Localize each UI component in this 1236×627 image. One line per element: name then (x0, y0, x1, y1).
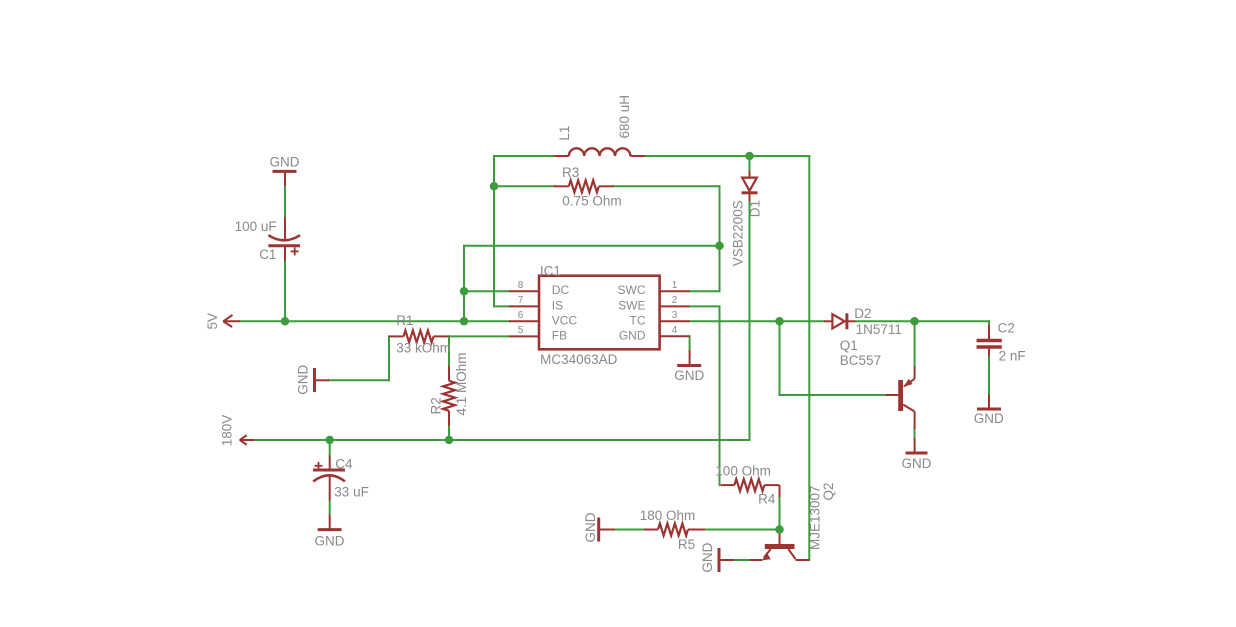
svg-text:100 Ohm: 100 Ohm (715, 464, 771, 479)
svg-text:C4: C4 (335, 457, 353, 472)
svg-text:Q1: Q1 (840, 338, 858, 353)
svg-text:Q2: Q2 (821, 482, 836, 500)
svg-text:4: 4 (672, 325, 678, 336)
svg-text:5: 5 (518, 325, 524, 336)
svg-text:BC557: BC557 (840, 353, 881, 368)
svg-text:VSB2200S: VSB2200S (730, 200, 745, 266)
svg-text:D2: D2 (854, 306, 871, 321)
svg-text:8: 8 (518, 280, 524, 291)
svg-text:GND: GND (974, 411, 1004, 426)
svg-text:R3: R3 (562, 165, 579, 180)
svg-text:GND: GND (619, 329, 646, 343)
svg-text:R2: R2 (429, 397, 444, 414)
svg-text:6: 6 (518, 310, 524, 321)
svg-text:100 uF: 100 uF (235, 219, 277, 234)
svg-text:180V: 180V (220, 415, 235, 447)
svg-text:3: 3 (672, 310, 678, 321)
svg-text:FB: FB (552, 329, 567, 343)
svg-text:GND: GND (295, 364, 310, 394)
svg-text:1: 1 (672, 280, 678, 291)
svg-text:IS: IS (552, 299, 563, 313)
svg-text:C2: C2 (998, 321, 1015, 336)
svg-text:1N5711: 1N5711 (856, 322, 902, 337)
svg-text:L1: L1 (557, 126, 572, 141)
svg-text:180 Ohm: 180 Ohm (640, 508, 696, 523)
svg-text:2 nF: 2 nF (999, 349, 1026, 364)
svg-text:GND: GND (315, 534, 345, 549)
svg-text:7: 7 (518, 295, 524, 306)
svg-text:MC34063AD: MC34063AD (540, 352, 618, 367)
svg-text:GND: GND (270, 155, 300, 170)
svg-text:GND: GND (674, 368, 704, 383)
svg-text:TC: TC (630, 314, 646, 328)
svg-text:GND: GND (700, 542, 715, 572)
svg-text:33 kOhm: 33 kOhm (396, 341, 451, 356)
svg-text:R5: R5 (678, 537, 695, 552)
svg-text:680 uH: 680 uH (617, 95, 632, 139)
svg-text:GND: GND (583, 512, 598, 542)
svg-text:IC1: IC1 (540, 263, 561, 278)
svg-text:DC: DC (552, 283, 570, 297)
svg-text:R4: R4 (758, 492, 776, 507)
svg-text:C1: C1 (259, 247, 276, 262)
svg-text:D1: D1 (748, 200, 763, 217)
svg-text:4.1 MOhm: 4.1 MOhm (454, 352, 469, 415)
svg-text:GND: GND (902, 456, 932, 471)
svg-text:SWC: SWC (618, 283, 646, 297)
svg-text:5V: 5V (205, 313, 220, 330)
svg-text:2: 2 (672, 295, 678, 306)
svg-text:VCC: VCC (552, 314, 578, 328)
svg-text:0.75 Ohm: 0.75 Ohm (562, 194, 621, 209)
svg-text:SWE: SWE (618, 299, 645, 313)
svg-text:33 uF: 33 uF (334, 484, 369, 499)
svg-text:R1: R1 (396, 313, 413, 328)
